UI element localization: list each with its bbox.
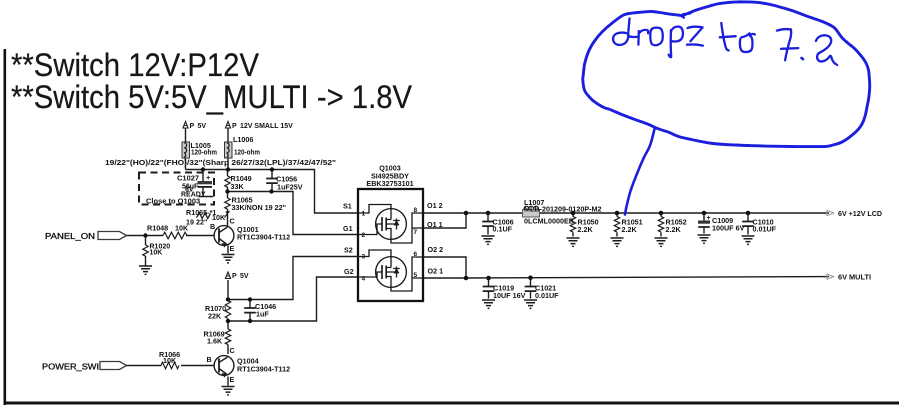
svg-text:+: + — [707, 215, 711, 222]
svg-text:E: E — [230, 375, 235, 384]
svg-text:R1048: R1048 — [147, 224, 168, 233]
svg-text:1: 1 — [362, 211, 366, 218]
svg-text:5V: 5V — [198, 123, 207, 130]
svg-text:0.01UF: 0.01UF — [535, 291, 559, 300]
svg-text:0.01UF: 0.01UF — [753, 225, 777, 234]
svg-text:10K: 10K — [175, 224, 189, 233]
svg-text:120-ohm: 120-ohm — [234, 148, 260, 157]
svg-text:EBK32753101: EBK32753101 — [366, 179, 413, 188]
svg-text:1uF25V: 1uF25V — [277, 183, 303, 192]
svg-text:E: E — [230, 244, 235, 253]
svg-text:33K: 33K — [231, 182, 245, 191]
svg-text:O2 2: O2 2 — [428, 245, 444, 254]
svg-text:S2: S2 — [344, 246, 353, 255]
svg-text:7: 7 — [414, 229, 418, 236]
svg-text:O2 1: O2 1 — [428, 267, 444, 276]
svg-text:2.2K: 2.2K — [578, 225, 594, 234]
svg-text:0LCML0000EB: 0LCML0000EB — [524, 217, 574, 226]
svg-text:Close to Q1003: Close to Q1003 — [146, 197, 200, 206]
svg-text:P: P — [190, 123, 195, 130]
svg-text:19/22"(HO)/22"(FHO)/32"(Sharp: 19/22"(HO)/22"(FHO)/32"(Sharp 26/27/32(L… — [105, 158, 336, 167]
svg-text:RT1C3904-T112: RT1C3904-T112 — [237, 233, 290, 242]
svg-text:O1 1: O1 1 — [427, 220, 443, 229]
svg-text:6: 6 — [414, 251, 418, 258]
svg-text:8: 8 — [414, 207, 418, 214]
svg-text:**Switch 12V:P12V: **Switch 12V:P12V — [11, 47, 260, 83]
svg-text:P: P — [232, 123, 237, 130]
svg-text:22K: 22K — [208, 312, 222, 321]
svg-text:6V +12V LCD: 6V +12V LCD — [838, 209, 882, 218]
svg-text:S1: S1 — [343, 202, 352, 211]
svg-text:C1027: C1027 — [177, 174, 199, 183]
svg-text:G1: G1 — [343, 224, 353, 233]
svg-text:2: 2 — [362, 232, 366, 239]
svg-text:6V MULTI: 6V MULTI — [838, 273, 871, 282]
svg-text:PANEL_ON: PANEL_ON — [45, 231, 95, 241]
svg-text:POWER_SWI: POWER_SWI — [42, 362, 99, 372]
svg-text:RT1C3904-T112: RT1C3904-T112 — [237, 365, 290, 374]
svg-text:B: B — [210, 222, 215, 231]
svg-text:**Switch 5V:5V_MULTI -> 1.8V: **Switch 5V:5V_MULTI -> 1.8V — [11, 79, 413, 115]
svg-text:12V SMALL 15V: 12V SMALL 15V — [240, 123, 293, 130]
svg-text:19 22": 19 22" — [186, 218, 207, 227]
svg-text:4: 4 — [362, 276, 366, 283]
svg-text:100UF 6V: 100UF 6V — [712, 224, 745, 233]
svg-text:1.6K: 1.6K — [207, 337, 223, 346]
svg-text:B: B — [207, 355, 212, 364]
svg-text:10K: 10K — [163, 356, 177, 365]
svg-text:5V: 5V — [240, 273, 249, 280]
svg-text:3: 3 — [362, 254, 366, 261]
svg-text:MLB-201209-0120P-M2: MLB-201209-0120P-M2 — [524, 205, 602, 214]
svg-text:+: + — [206, 173, 211, 182]
svg-text:0.1UF: 0.1UF — [493, 225, 513, 234]
svg-text:2.2K: 2.2K — [622, 225, 638, 234]
svg-text:10K: 10K — [212, 213, 226, 222]
svg-text:5: 5 — [414, 272, 418, 279]
svg-text:10K: 10K — [150, 250, 163, 257]
svg-text:120-ohm: 120-ohm — [191, 148, 217, 157]
svg-text:1uF: 1uF — [256, 310, 269, 319]
svg-text:10UF 16V: 10UF 16V — [493, 291, 526, 300]
svg-text:L1006: L1006 — [233, 135, 253, 144]
svg-text:O1 2: O1 2 — [427, 201, 443, 210]
svg-text:P: P — [232, 273, 237, 280]
svg-text:C: C — [230, 346, 235, 355]
svg-text:2.2K: 2.2K — [666, 225, 682, 234]
svg-text:C: C — [230, 217, 235, 226]
svg-text:33K/NON 19 22": 33K/NON 19 22" — [232, 203, 287, 212]
svg-text:G2: G2 — [344, 267, 354, 276]
